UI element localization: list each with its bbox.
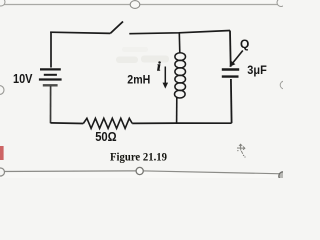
inductor L 2mH [175,53,186,98]
wire inductor top [178,33,181,53]
wire right rail upper [229,31,232,67]
svg-text:2mH: 2mH [127,73,150,87]
arrow Q to plate [230,51,243,67]
top-right hole [277,0,285,7]
wire left rail lower [50,86,52,123]
bottom edge line [0,171,283,174]
svg-text:10V: 10V [13,71,33,86]
bottom-left hole [0,168,5,176]
capacitor C 3μF [222,70,239,77]
switch S1 [110,22,123,34]
svg-text:3μF: 3μF [247,63,266,77]
wire bottom rail right [132,122,231,124]
svg-text:Q: Q [240,37,249,51]
wire inductor bottom [176,97,178,123]
paper background [0,0,283,178]
svg-text:50Ω: 50Ω [95,130,117,144]
battery 10V [39,69,62,85]
svg-text:Figure 21.19: Figure 21.19 [110,150,167,163]
cursor mark [237,144,246,157]
resistor R 50Ω [83,118,132,128]
bottom-right hole [279,172,287,180]
wire right rail lower [230,79,233,123]
top edge line [0,4,283,6]
wire bottom rail left [51,122,84,125]
top-center hole [130,1,140,9]
red mark [0,146,4,160]
wire left rail upper [50,32,52,68]
top-left hole [0,0,5,6]
wire top rail left [50,32,110,33]
current arrow i [163,67,169,89]
svg-text:i: i [157,59,161,74]
bottom-center hole [136,167,143,174]
left-middle hole [0,86,4,95]
wire top rail right [129,31,230,34]
right-middle hole [280,81,288,89]
ghost bleed marks [116,47,169,63]
